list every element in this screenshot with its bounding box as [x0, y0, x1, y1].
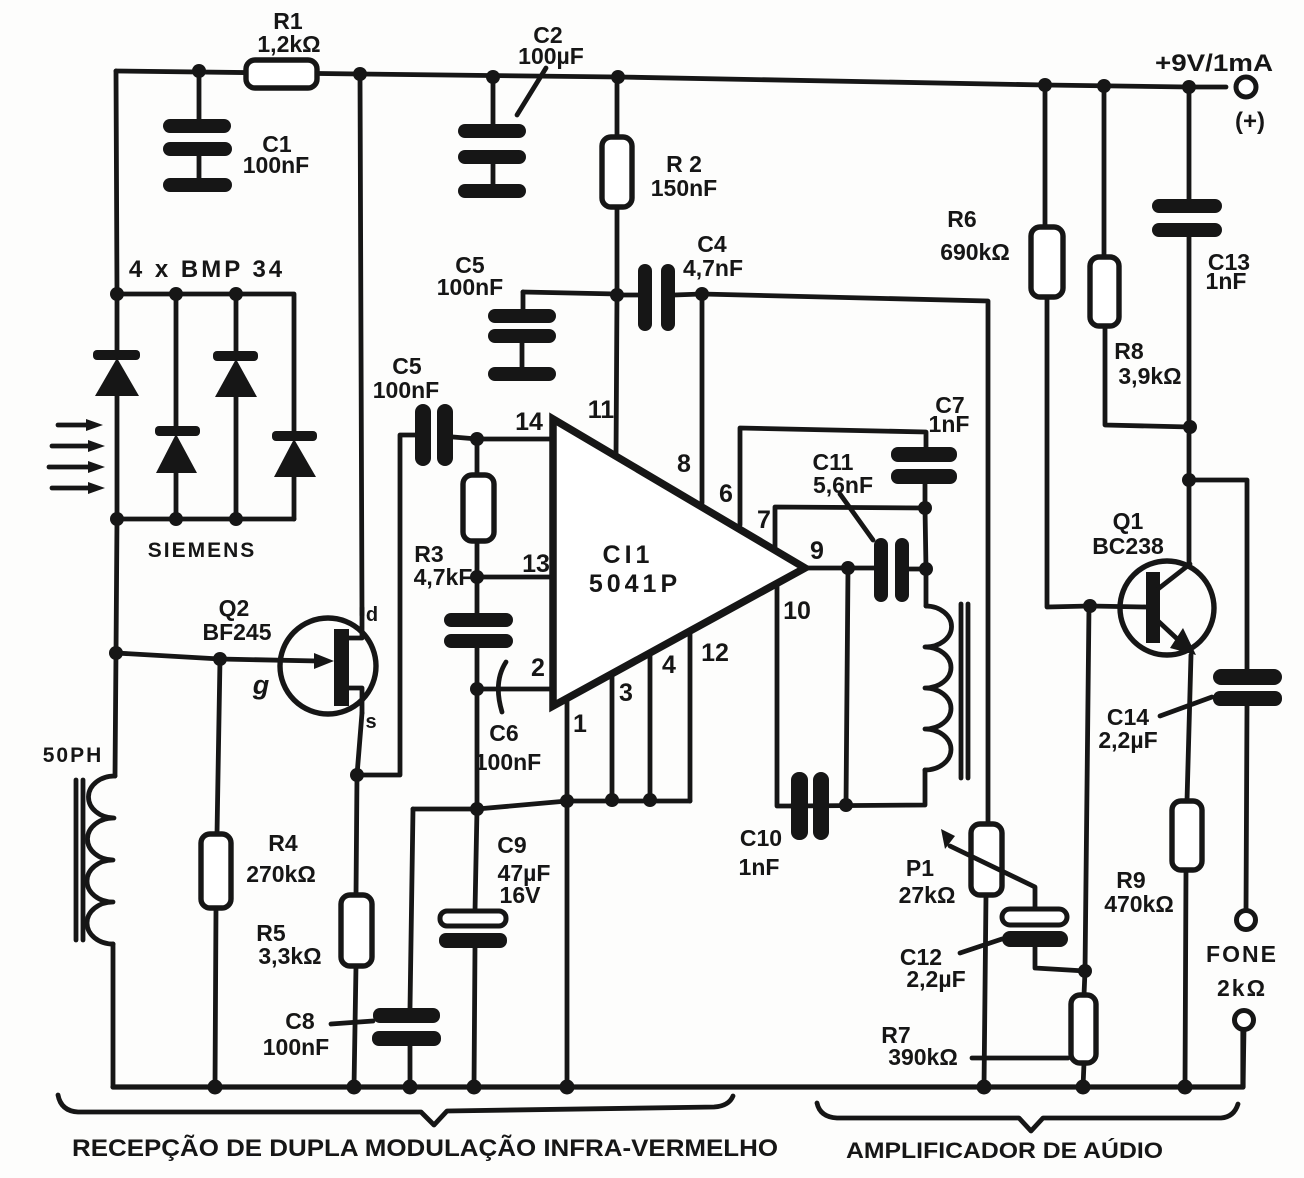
node R8-C13 [1183, 420, 1197, 434]
wire R6 top stub [1043, 85, 1048, 227]
wire pin 7 loop [775, 507, 925, 547]
svg-text:12: 12 [701, 639, 729, 667]
svg-text:d: d [366, 604, 378, 626]
wire C6 top stub [475, 577, 480, 613]
node bus R7 [1076, 1080, 1091, 1095]
node 11 C5a-R2-C4 [610, 288, 624, 302]
svg-text:270kΩ: 270kΩ [246, 861, 316, 887]
svg-text:3: 3 [619, 679, 633, 707]
op-amp IC CI1 5041P [553, 419, 805, 706]
light arrow 3 [49, 461, 105, 473]
svg-text:1,2kΩ: 1,2kΩ [257, 31, 320, 57]
node source-R5-C5b [350, 768, 364, 782]
node bus pin1 [560, 1080, 575, 1095]
wire R4 bottom to bus [215, 908, 216, 1087]
svg-text:10: 10 [783, 597, 811, 625]
capacitor C8 [331, 1008, 441, 1046]
resistor R2 [602, 137, 632, 207]
wire R9 bottom to bus [1185, 870, 1186, 1087]
wire C13 bottom to Q1 collector [1187, 237, 1192, 565]
node diode bus bottom 1 [110, 512, 124, 526]
svg-text:C6: C6 [489, 720, 518, 746]
node rail-R1 right [353, 67, 367, 81]
node bus R9 [1178, 1080, 1193, 1095]
resistor R1 [246, 60, 317, 88]
wire P1 bottom to bus [984, 895, 986, 1087]
node rail-C13 [1182, 80, 1196, 94]
wire coil L2 bottom to C10 [791, 770, 925, 806]
wire pin 14 [453, 437, 553, 439]
wire node 9 down to C10 node [846, 568, 848, 805]
potentiometer P1 [941, 824, 1035, 909]
node rail-R2 [611, 70, 625, 84]
brace right section [817, 1103, 1238, 1131]
inductor L1 50PH [76, 776, 115, 944]
photodiode array top bus [117, 294, 294, 433]
svg-text:390kΩ: 390kΩ [888, 1044, 958, 1070]
capacitor C5 lower [415, 404, 453, 466]
node C12-R7 [1078, 964, 1092, 978]
wire R8 top stub [1102, 86, 1107, 257]
svg-text:Q1: Q1 [1113, 508, 1144, 534]
svg-text:C9: C9 [497, 832, 526, 858]
svg-text:4: 4 [662, 651, 676, 679]
svg-text:AMPLIFICADOR DE AÚDIO: AMPLIFICADOR DE AÚDIO [846, 1138, 1163, 1163]
wire node 11 to C4 left [617, 293, 639, 298]
svg-text:6: 6 [719, 480, 733, 508]
wire pin 9 from apex to C11 [805, 566, 874, 571]
svg-text:R8: R8 [1114, 338, 1144, 364]
wire C12 bottom to R7 node [1035, 947, 1085, 971]
photodiode D2 [155, 294, 200, 519]
capacitor C4 [638, 264, 675, 331]
wire C8 bottom to bus [408, 1046, 413, 1087]
svg-text:50PH: 50PH [43, 744, 104, 767]
wire signal ground link [413, 801, 690, 809]
wire gate Q2 [116, 653, 318, 661]
wire coil L2 top stub [924, 569, 929, 606]
wire pin 1 into CI1 and down to bus [565, 698, 570, 1087]
svg-text:470kΩ: 470kΩ [1104, 891, 1174, 917]
svg-text:3,3kΩ: 3,3kΩ [258, 943, 321, 969]
svg-text:C5: C5 [392, 353, 422, 379]
svg-text:5041P: 5041P [589, 570, 681, 598]
node pin14-R3 [470, 432, 484, 446]
resistor R5 [341, 895, 372, 966]
wire R4 top stub [217, 659, 220, 834]
transformer L2 core [961, 604, 968, 778]
svg-text:8: 8 [677, 450, 691, 478]
svg-text:100nF: 100nF [475, 749, 541, 775]
svg-text:9: 9 [810, 537, 824, 565]
node rail-R6 [1038, 78, 1052, 92]
svg-text:R 2: R 2 [666, 151, 702, 177]
node signal ground pin4 [643, 793, 657, 807]
wire source node to R5 [356, 775, 357, 895]
svg-text:P1: P1 [906, 855, 934, 881]
node rail-C2 [486, 70, 500, 84]
wire R2 top stub [615, 77, 620, 137]
svg-text:4,7nF: 4,7nF [683, 255, 743, 281]
transistor Q2 BF245 [280, 618, 376, 714]
wire Q1 base from node [1090, 606, 1146, 607]
wire collector node to C14 corner [1189, 480, 1247, 669]
capacitor C12 electrolytic [960, 909, 1068, 953]
capacitor C2 [458, 68, 546, 198]
svg-text:16V: 16V [500, 882, 542, 908]
wire pin 6 loop [740, 428, 926, 525]
svg-text:R9: R9 [1116, 867, 1145, 893]
capacitor C1 [163, 71, 232, 192]
resistor R7 [972, 995, 1096, 1063]
svg-text:100nF: 100nF [437, 274, 503, 300]
node bus R5 [347, 1080, 362, 1095]
resistor R4 [201, 834, 231, 908]
wire Q1 base node down to R7 node [1085, 606, 1089, 971]
svg-text:4,7kF: 4,7kF [414, 564, 473, 590]
node diode bus bottom 3 [229, 512, 243, 526]
node diode bus top 1 [110, 287, 124, 301]
node gate-R4 [213, 652, 227, 666]
svg-text:2kΩ: 2kΩ [1217, 975, 1267, 1001]
svg-text:1nF: 1nF [929, 411, 970, 437]
wire R7 node to R7 top [1084, 971, 1085, 995]
svg-text:C8: C8 [285, 1008, 315, 1034]
node bus R4 [208, 1080, 223, 1095]
svg-text:g: g [252, 670, 270, 700]
svg-text:7: 7 [757, 506, 771, 534]
node collector-C14 [1182, 473, 1196, 487]
node pin13-R3-C6 [470, 570, 484, 584]
svg-text:100nF: 100nF [263, 1034, 329, 1060]
wire C9 top stub [475, 809, 477, 911]
capacitor C13 [1152, 199, 1222, 237]
photodiode array bottom bus [117, 517, 294, 522]
wire C7 node down to C11 node [925, 508, 926, 569]
resistor R9 [1172, 801, 1202, 870]
wire pin 11 into CI1 [616, 295, 617, 457]
photodiode D4 [272, 431, 317, 519]
transformer L2 winding [925, 606, 952, 770]
wire C7 bottom stub [923, 484, 928, 508]
capacitor C7 [891, 447, 957, 484]
wire pin 10 into CI1 and down to C10 [777, 584, 791, 806]
photodiode D3 [213, 294, 258, 519]
svg-text:2,2µF: 2,2µF [1098, 727, 1157, 753]
svg-text:1nF: 1nF [739, 854, 780, 880]
wire Q2 source connector [348, 688, 362, 713]
wire pin 2 node down to ground node [475, 689, 480, 809]
svg-text:100nF: 100nF [373, 377, 439, 403]
svg-text:R6: R6 [947, 206, 976, 232]
svg-text:1: 1 [573, 710, 587, 738]
capacitor C11 [840, 494, 909, 602]
svg-text:150nF: 150nF [651, 175, 717, 201]
node bus C9 [467, 1080, 482, 1095]
terminal FONE top [1237, 911, 1256, 930]
resistor R8 [1090, 257, 1119, 326]
resistor R6 [1031, 227, 1063, 297]
svg-text:C10: C10 [740, 825, 782, 851]
wire Q1 emitter down to R9 [1187, 655, 1191, 801]
node Q1 base [1083, 599, 1097, 613]
node diode bus top 2 [169, 287, 183, 301]
capacitor C5 upper [488, 292, 556, 381]
node bus C8 [403, 1080, 418, 1095]
wire C6 bottom stub [475, 648, 480, 689]
capacitor C14 [1160, 669, 1282, 716]
wire pin 12 into CI1 [688, 631, 693, 801]
wire Q2 drain connector [348, 608, 362, 638]
node diode bus bottom 2 [169, 512, 183, 526]
node 9 apex-C11 [841, 561, 855, 575]
brace left section [58, 1095, 733, 1125]
node rail-C1 [192, 64, 206, 78]
light arrow 2 [52, 440, 105, 452]
wire C8 top link [410, 809, 413, 1008]
svg-text:s: s [365, 711, 376, 733]
photodiode D1 [93, 294, 140, 519]
wire R3 top stub [475, 439, 480, 475]
wire pin 8 into CI1 [700, 294, 705, 503]
svg-text:FONE: FONE [1206, 941, 1278, 967]
wire C4 right to node 8 [674, 294, 702, 295]
wire R7 to bottom bus [1083, 1063, 1084, 1087]
capacitor C10 [791, 772, 829, 840]
svg-text:3,9kΩ: 3,9kΩ [1118, 363, 1181, 389]
svg-text:2,2µF: 2,2µF [906, 966, 965, 992]
svg-text:4 x BMP 34: 4 x BMP 34 [129, 256, 285, 283]
node C7-pin7 [918, 501, 932, 515]
node C10-coil bottom [839, 798, 853, 812]
wire left vertical from gate node to coil L1 top [115, 653, 116, 776]
svg-text:27kΩ: 27kΩ [899, 882, 956, 908]
svg-text:13: 13 [522, 550, 550, 578]
svg-text:CI1: CI1 [603, 541, 654, 569]
svg-text:RECEPÇÃO DE DUPLA MODULAÇÃO I: RECEPÇÃO DE DUPLA MODULAÇÃO INFRA-VERMEL… [72, 1134, 778, 1162]
wire Q2 source down to node [357, 713, 362, 775]
wire top supply rail +9V [116, 71, 1226, 87]
node pin2-C6-C9 [470, 682, 484, 696]
svg-text:14: 14 [515, 408, 543, 436]
wire pin 2 [477, 687, 553, 692]
wire pin 4 into CI1 [648, 653, 653, 800]
wire R6 bottom to Q1 base node [1047, 297, 1090, 607]
svg-text:BF245: BF245 [202, 619, 271, 645]
svg-text:5,6nF: 5,6nF [813, 472, 873, 498]
svg-text:1nF: 1nF [1206, 268, 1247, 294]
node signal ground C9 [470, 802, 484, 816]
node rail-R8 [1097, 79, 1111, 93]
node signal ground pin3 [605, 793, 619, 807]
wire left vertical from rail to photodiode bus [116, 71, 117, 294]
node signal ground pin1 [560, 794, 574, 808]
light arrow 1 [58, 419, 103, 431]
wire drain Q2 up to rail [360, 74, 362, 615]
wire R8 bottom to C13 node [1105, 326, 1190, 427]
wire node 8 to P1 feed corner [702, 294, 988, 824]
resistor R3 [463, 475, 494, 541]
wire C14 bottom to FONE top terminal [1246, 705, 1247, 911]
light arrow 4 [52, 482, 105, 494]
wire R3 bottom to pin 13 node [475, 541, 480, 577]
svg-text:690kΩ: 690kΩ [940, 239, 1010, 265]
svg-text:100nF: 100nF [243, 152, 309, 178]
wire left vertical from photodiode bus to gate node [116, 519, 117, 653]
node gate wire left [109, 646, 123, 660]
wire pin 13 [477, 575, 553, 580]
wire C5a to node 11 [523, 292, 617, 294]
terminal +9V [1236, 77, 1256, 97]
svg-text:BC238: BC238 [1092, 533, 1164, 559]
svg-text:11: 11 [588, 396, 615, 424]
svg-text:2: 2 [531, 654, 545, 682]
wire C9 bottom to bus [474, 947, 475, 1087]
svg-text:(+): (+) [1235, 108, 1265, 135]
svg-text:C4: C4 [697, 231, 727, 257]
svg-text:100µF: 100µF [518, 43, 584, 69]
svg-text:Q2: Q2 [219, 595, 250, 621]
wire R5 bottom to bus [354, 966, 356, 1087]
node bus P1 [977, 1080, 992, 1095]
node 8 C4 right [695, 287, 709, 301]
wire bottom ground bus [113, 1029, 1243, 1087]
node C11-coil [919, 562, 933, 576]
terminal FONE bottom [1235, 1011, 1254, 1030]
svg-text:+9V/1mA: +9V/1mA [1155, 50, 1273, 77]
wire C5b left to source node [356, 435, 415, 775]
wire C11 right to coil node [909, 567, 926, 572]
capacitor C6 [444, 613, 513, 712]
wire FONE bottom terminal to bus [1243, 1029, 1244, 1087]
svg-text:R4: R4 [268, 830, 298, 856]
transistor Q1 BC238 [1120, 561, 1214, 655]
wire pin 3 into CI1 [610, 674, 615, 800]
node diode bus top 3 [229, 287, 243, 301]
wire R2 bottom to node 11 [615, 207, 620, 295]
wire C13 top stub [1187, 87, 1192, 199]
capacitor C9 electrolytic [439, 911, 507, 948]
svg-text:SIEMENS: SIEMENS [148, 539, 257, 562]
wire coil L1 bottom to bottom bus corner [111, 944, 116, 1087]
